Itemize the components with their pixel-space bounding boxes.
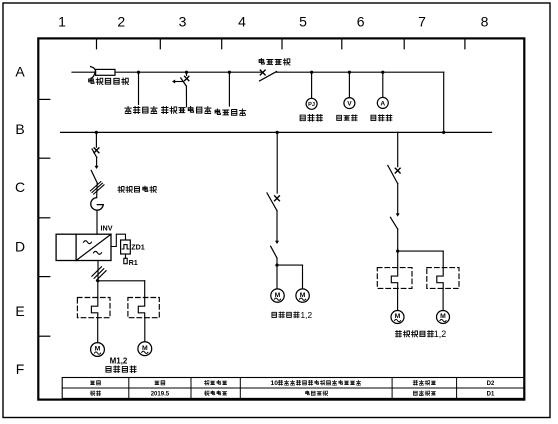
svg-text:7: 7	[418, 14, 426, 30]
svg-text:PJ: PJ	[308, 102, 315, 108]
svg-text:2019.5: 2019.5	[151, 391, 170, 397]
svg-text:1: 1	[58, 14, 66, 30]
svg-text:6: 6	[357, 14, 365, 30]
svg-text:D2: D2	[487, 381, 495, 387]
svg-text:B: B	[15, 121, 24, 137]
svg-text:10: 10	[270, 380, 278, 387]
svg-text:V: V	[347, 100, 352, 107]
svg-text:1,2: 1,2	[301, 311, 313, 320]
svg-text:8: 8	[481, 14, 489, 30]
svg-text:E: E	[15, 303, 24, 319]
svg-text:C: C	[15, 179, 25, 195]
svg-text:1,2: 1,2	[434, 329, 446, 339]
svg-text:A: A	[380, 100, 385, 107]
svg-text:F: F	[16, 361, 25, 377]
svg-text:INV: INV	[101, 223, 113, 232]
svg-text:A: A	[15, 63, 25, 79]
svg-text:3: 3	[179, 14, 187, 30]
svg-text:ZD1: ZD1	[131, 243, 145, 252]
svg-text:4: 4	[238, 14, 246, 30]
svg-text:2: 2	[117, 14, 125, 30]
svg-text:D1: D1	[487, 391, 495, 397]
svg-text:R1: R1	[129, 258, 138, 267]
svg-text:M1,2: M1,2	[110, 357, 128, 366]
svg-text:D: D	[15, 239, 25, 255]
svg-text:5: 5	[299, 14, 307, 30]
